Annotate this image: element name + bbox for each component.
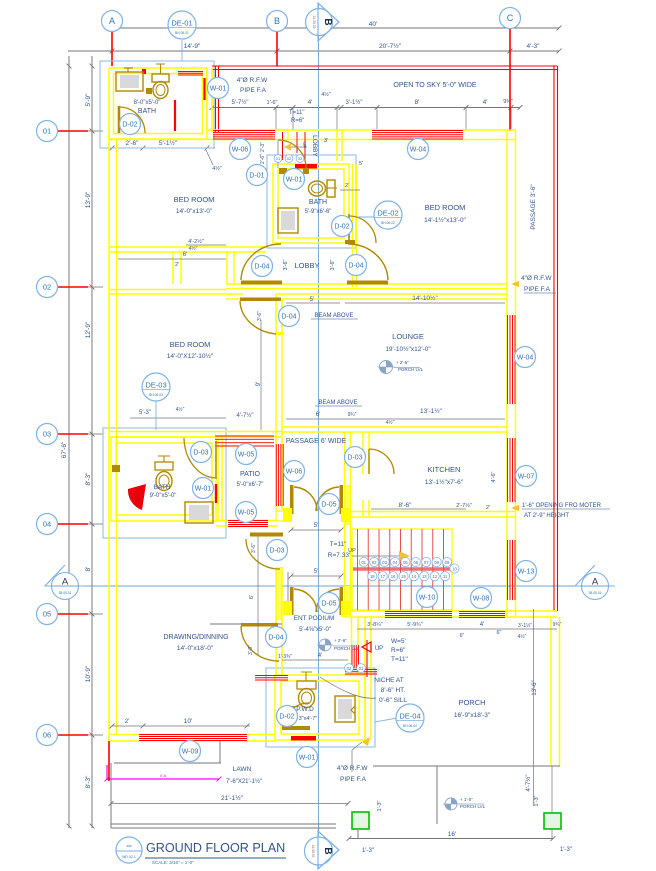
svg-text:BH-06-02: BH-06-02 [381,221,395,225]
svg-text:PIPE F.A: PIPE F.A [240,87,267,94]
svg-text:16: 16 [391,574,396,579]
svg-text:24-08-52: 24-08-52 [312,16,316,29]
svg-text:5': 5' [314,569,318,575]
svg-text:W-04: W-04 [410,147,427,154]
svg-text:14: 14 [412,574,417,579]
svg-text:BH-06-04: BH-06-04 [403,724,417,728]
svg-text:UP: UP [302,142,307,148]
svg-text:4': 4' [318,653,322,659]
svg-text:4': 4' [483,99,488,106]
svg-text:6': 6' [249,595,255,599]
svg-text:03: 03 [43,430,51,439]
svg-text:14′-0"x13′-0": 14′-0"x13′-0" [176,208,213,215]
svg-text:W-04: W-04 [517,355,534,362]
svg-text:14′-0"X12′-10½": 14′-0"X12′-10½" [167,352,214,360]
svg-text:1′-6": 1′-6" [267,100,278,106]
svg-text:02: 02 [347,666,352,671]
svg-text:5': 5' [310,297,314,303]
svg-text:BATH: BATH [154,484,171,491]
svg-text:OPEN TO SKY 5′-0" WIDE: OPEN TO SKY 5′-0" WIDE [393,82,476,89]
svg-text:W-08: W-08 [473,596,490,603]
svg-text:W-01: W-01 [210,86,227,93]
svg-text:C: C [507,13,514,23]
svg-text:8′-6": 8′-6" [399,502,413,509]
svg-text:06: 06 [413,560,418,565]
svg-text:16': 16' [448,831,456,838]
svg-text:9¾": 9¾" [348,412,357,418]
svg-text:D-02: D-02 [122,122,137,129]
svg-text:PATIO: PATIO [240,471,261,478]
svg-text:LOBBY: LOBBY [311,135,318,157]
svg-text:B: B [322,18,333,25]
svg-text:67′-6": 67′-6" [61,441,68,458]
svg-text:PASSAGE 3′-6": PASSAGE 3′-6" [530,184,537,230]
svg-text:D-02: D-02 [334,224,349,231]
svg-text:3': 3' [324,138,328,144]
svg-text:02: 02 [43,283,51,292]
svg-text:BED ROOM: BED ROOM [170,340,211,349]
svg-text:PIPE F.A: PIPE F.A [524,286,551,293]
svg-text:4"Ø R.F.W: 4"Ø R.F.W [521,275,552,282]
svg-text:AT 2′-9" HEIGHT: AT 2′-9" HEIGHT [524,513,569,519]
svg-text:A: A [109,16,115,26]
svg-text:17: 17 [380,574,385,579]
svg-text:1′-3": 1′-3" [362,848,374,854]
svg-text:01: 01 [43,127,51,136]
svg-text:A: A [62,577,69,588]
svg-text:3′-6": 3′-6" [251,543,257,553]
svg-text:3′-0": 3′-0" [248,645,254,655]
svg-text:W-01: W-01 [286,177,303,184]
svg-text:1′-3": 1′-3" [534,795,540,806]
svg-text:D-04: D-04 [254,264,269,271]
svg-text:4′-7½": 4′-7½" [525,775,532,792]
svg-text:3′-1½": 3′-1½" [518,622,532,629]
svg-text:12′-9": 12′-9" [85,321,92,338]
svg-text:8′-6" HT.: 8′-6" HT. [381,687,406,694]
svg-text:4′-6": 4′-6" [491,471,497,482]
svg-text:9′-0"x5′-0": 9′-0"x5′-0" [150,493,177,499]
svg-text:40': 40' [369,21,377,28]
svg-text:BEAM ABOVE: BEAM ABOVE [314,313,353,319]
svg-text:W-09: W-09 [182,749,199,756]
svg-text:11: 11 [443,574,448,579]
svg-text:2': 2' [175,262,179,268]
svg-text:4': 4' [480,622,484,628]
svg-text:BATH: BATH [138,108,156,115]
svg-text:3′-6": 3′-6" [330,259,336,270]
svg-text:10′-9": 10′-9" [85,665,92,682]
svg-text:4′-2½": 4′-2½" [188,238,204,245]
svg-text:03: 03 [298,156,303,161]
svg-text:02: 02 [372,560,377,565]
svg-text:D-04: D-04 [348,263,363,270]
svg-text:05: 05 [43,610,51,619]
svg-text:3′-8¼": 3′-8¼" [367,622,383,628]
svg-text:DE-03: DE-03 [145,381,166,390]
svg-text:W-06: W-06 [232,147,249,154]
svg-text:18: 18 [370,574,375,579]
svg-text:1′-3": 1′-3" [560,847,572,853]
svg-text:20′-7½": 20′-7½" [379,42,402,50]
svg-text:4′-7½": 4′-7½" [237,412,254,419]
svg-text:6': 6' [316,412,320,418]
svg-text:12: 12 [432,574,437,579]
svg-text:8′-3": 8′-3" [85,775,92,789]
svg-text:KITCHEN: KITCHEN [428,465,461,474]
svg-text:D-05: D-05 [321,502,336,509]
svg-text:07: 07 [424,560,429,565]
svg-text:01: 01 [361,560,366,565]
svg-text:1′-3¾": 1′-3¾" [278,654,292,660]
svg-text:D-02: D-02 [279,714,294,721]
svg-text:21′-1½": 21′-1½" [221,794,244,802]
svg-text:10: 10 [452,566,457,571]
svg-text:14′-10½": 14′-10½" [412,294,438,302]
svg-text:4½": 4½" [176,406,185,413]
svg-text:P.W.D: P.W.D [296,706,314,713]
svg-text:19′-10½"x12′-0": 19′-10½"x12′-0" [385,345,431,353]
svg-text:3′-1½": 3′-1½" [346,99,363,106]
svg-text:DRAWING/DINNING: DRAWING/DINNING [163,634,228,641]
svg-text:14′-0"x18′-0": 14′-0"x18′-0" [177,645,214,652]
svg-text:5′-7½": 5′-7½" [232,99,249,106]
svg-text:8′-3": 8′-3" [85,472,92,486]
svg-text:R=7.33': R=7.33' [328,552,350,559]
svg-text:BEAM ABOVE: BEAM ABOVE [318,400,357,406]
svg-text:01: 01 [276,156,281,161]
svg-text:2': 2' [125,719,129,725]
svg-text:BED ROOM: BED ROOM [174,195,215,204]
svg-text:13: 13 [422,574,427,579]
svg-text:T=11": T=11" [391,656,409,663]
svg-text:0′-6" SILL: 0′-6" SILL [379,697,407,704]
svg-text:13′-6": 13′-6" [532,680,538,695]
svg-text:4½": 4½" [518,633,527,640]
svg-text:14′-9": 14′-9" [184,43,201,50]
svg-text:UP: UP [375,646,383,652]
svg-text:D-03: D-03 [347,455,362,462]
svg-text:2′-6": 2′-6" [126,140,140,147]
svg-text:13′-1½"x7′-6": 13′-1½"x7′-6" [425,478,464,486]
svg-text:PORCH LVL: PORCH LVL [334,646,360,651]
svg-text:5′-3": 5′-3" [139,410,151,416]
svg-text:B: B [274,16,280,26]
svg-text:13′-1½": 13′-1½" [420,407,443,415]
svg-text:BED ROOM: BED ROOM [425,203,466,212]
svg-text:9¾": 9¾" [553,622,562,628]
svg-text:38-05-01: 38-05-01 [589,591,602,595]
svg-text:2′-3": 2′-3" [260,142,266,152]
svg-text:5′-9": 5′-9" [85,93,92,107]
svg-text:W-01: W-01 [299,755,316,762]
svg-text:05: 05 [403,560,408,565]
svg-text:T=11": T=11" [330,541,348,548]
svg-text:4': 4' [308,99,313,106]
svg-text:SCALE: 3/16" = 1′-0": SCALE: 3/16" = 1′-0" [152,860,194,865]
svg-text:5': 5' [359,161,363,167]
svg-text:PASSAGE 6' WIDE: PASSAGE 6' WIDE [286,438,347,445]
svg-text:B: B [322,847,333,854]
svg-text:LAWN: LAWN [233,766,252,773]
svg-text:8': 8' [85,567,92,572]
svg-text:D-03: D-03 [193,450,208,457]
svg-text:4"Ø R.F.W: 4"Ø R.F.W [237,77,268,84]
svg-text:WD-02-1: WD-02-1 [122,855,136,859]
svg-text:5′-4⅝"x5′-0": 5′-4⅝"x5′-0" [299,627,331,633]
svg-text:09: 09 [445,560,450,565]
svg-text:2′-7½": 2′-7½" [456,502,472,509]
svg-text:D-01: D-01 [249,173,264,180]
svg-text:5′-0"x6′-7": 5′-0"x6′-7" [237,482,264,488]
svg-text:+ 2'-6″: + 2'-6″ [396,360,409,365]
svg-text:7′-6"X21′-1½": 7′-6"X21′-1½" [226,778,262,785]
svg-text:R=6": R=6" [391,647,406,654]
svg-text:1′-6" OPENING FRO MOTER: 1′-6" OPENING FRO MOTER [522,503,602,509]
svg-text:BH-06-03: BH-06-03 [149,393,163,397]
svg-text:BH-06-01: BH-06-01 [175,31,189,35]
svg-text:6": 6" [496,630,501,636]
svg-text:PIPE F.A: PIPE F.A [340,776,367,783]
svg-text:W-10: W-10 [419,595,436,602]
svg-text:14′-1½"x13′-0": 14′-1½"x13′-0" [424,216,466,224]
svg-text:W-13: W-13 [518,569,535,576]
svg-text:LOBBY: LOBBY [294,261,319,270]
svg-text:04: 04 [393,560,398,565]
svg-text:W-05: W-05 [238,452,255,459]
svg-text:D-04: D-04 [268,635,283,642]
svg-text:DE-01: DE-01 [171,19,192,28]
svg-text:PORCH LVL: PORCH LVL [460,804,486,809]
svg-text:9¾": 9¾" [503,99,513,105]
svg-text:NICHE AT: NICHE AT [374,677,404,684]
svg-text:24-08-52: 24-08-52 [311,845,315,858]
svg-text:GROUND FLOOR PLAN: GROUND FLOOR PLAN [146,841,285,855]
svg-text:BATH: BATH [309,199,327,206]
svg-text:04: 04 [43,520,51,529]
svg-text:DE-04: DE-04 [399,712,420,721]
svg-text:2′-6": 2′-6" [260,154,266,164]
svg-text:6": 6" [460,633,465,639]
svg-text:38-05-01: 38-05-01 [59,591,72,595]
svg-text:5': 5' [314,523,318,529]
svg-text:W-01: W-01 [195,486,212,493]
svg-text:8': 8' [415,99,420,106]
svg-text:3′-6": 3′-6" [283,259,289,270]
svg-text:4½": 4½" [321,91,331,98]
svg-text:D-04: D-04 [281,314,296,321]
svg-text:6': 6' [183,252,187,258]
svg-text:LOUNGE: LOUNGE [392,332,424,341]
svg-text:03: 03 [382,560,387,565]
svg-text:2': 2' [345,183,349,189]
svg-text:PORCH: PORCH [458,698,485,707]
svg-text:4½": 4½" [386,419,395,426]
svg-text:2': 2' [486,505,490,511]
svg-text:W=5': W=5' [391,638,406,645]
svg-text:4"Ø R.F.W: 4"Ø R.F.W [337,765,368,772]
svg-text:DE-02: DE-02 [377,209,398,218]
svg-text:5′-9¾": 5′-9¾" [407,622,423,628]
svg-text:06: 06 [43,731,51,740]
svg-text:W-07: W-07 [518,474,535,481]
svg-text:4′-3": 4′-3" [527,43,541,50]
svg-text:A: A [592,577,599,588]
svg-text:16′-9"x18′-3": 16′-9"x18′-3" [454,712,491,719]
svg-text:3′-6": 3′-6" [257,311,263,321]
svg-text:+ 2'-6″: + 2'-6″ [334,638,347,643]
svg-text:+ 1'-0″: + 1'-0″ [460,797,473,802]
svg-text:W-05: W-05 [238,510,255,517]
svg-text:02: 02 [287,156,292,161]
svg-text:08: 08 [434,560,439,565]
svg-text:01: 01 [359,666,364,671]
svg-text:10': 10' [184,718,192,725]
svg-text:1′-3": 1′-3" [377,800,383,811]
svg-text:--: -- [126,841,132,850]
svg-text:15: 15 [401,574,406,579]
svg-text:R=6": R=6" [291,118,304,124]
svg-text:4'-6: 4'-6 [160,773,167,778]
svg-text:T=11": T=11" [289,110,305,116]
svg-text:W-06: W-06 [286,469,303,476]
svg-text:ENT PODIUM: ENT PODIUM [294,615,335,622]
svg-text:8′-0"x5′-0": 8′-0"x5′-0" [134,100,161,106]
svg-text:4½": 4½" [212,165,222,172]
svg-text:13′-9": 13′-9" [85,191,92,208]
svg-text:4½": 4½" [189,245,198,252]
svg-text:5′-9"x6′-6": 5′-9"x6′-6" [305,209,332,215]
svg-text:D-03: D-03 [269,548,284,555]
svg-text:D-05: D-05 [321,601,336,608]
